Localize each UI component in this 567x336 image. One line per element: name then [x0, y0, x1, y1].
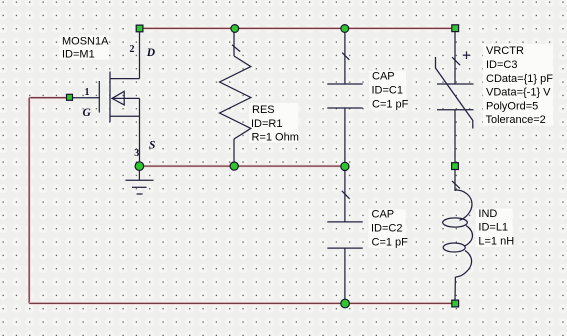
svg-text:1: 1 — [85, 87, 90, 98]
svg-text:MOSN1A: MOSN1A — [62, 35, 109, 47]
svg-text:G: G — [83, 107, 92, 119]
svg-text:ID=C2: ID=C2 — [371, 223, 403, 235]
inductor L1 — [443, 170, 473, 300]
wire: middle net (source/ground to C1-C2 node) — [139, 165, 345, 168]
svg-text:C=1 pF: C=1 pF — [372, 237, 409, 249]
svg-text:ID=M1: ID=M1 — [62, 49, 95, 61]
svg-text:ID=C1: ID=C1 — [372, 84, 404, 96]
svg-text:L=1 nH: L=1 nH — [478, 236, 514, 248]
text halo boxes — [59, 36, 553, 249]
wire: top net from M1 drain to C3 — [140, 27, 456, 30]
capacitor C1 — [327, 32, 362, 162]
svg-text:C=1 pF: C=1 pF — [372, 99, 409, 111]
label RES / ID=R1 / R=1 Ohm — [251, 104, 299, 144]
svg-text:ID=C3: ID=C3 — [486, 59, 518, 71]
svg-text:PolyOrd=5: PolyOrd=5 — [486, 100, 538, 112]
label CAP / ID=C2 / C=1 pF — [371, 209, 408, 249]
label IND / ID=L1 / L=1 nH — [478, 208, 514, 248]
transistor M1 MOSN1A — [67, 32, 140, 162]
svg-text:CAP: CAP — [372, 71, 395, 83]
node: junction at ground — [135, 162, 144, 171]
svg-text:CAP: CAP — [372, 209, 395, 221]
svg-text:VData={-1} V: VData={-1} V — [486, 87, 551, 99]
wire: bottom net — [29, 302, 455, 305]
node: junction at R1 bottom — [230, 162, 238, 170]
label MOSN1A / ID=M1 — [62, 35, 109, 60]
svg-text:VRCTR: VRCTR — [486, 45, 524, 57]
svg-text:3: 3 — [134, 148, 139, 159]
node: junction at C2 bottom — [341, 299, 350, 308]
varactor C3 VRCTR — [436, 32, 474, 162]
capacitor C2 — [327, 171, 362, 300]
svg-text:Tolerance=2: Tolerance=2 — [486, 114, 546, 126]
node: port square between C3 and L1 — [452, 163, 459, 170]
resistor R1 — [220, 32, 251, 162]
node: port square at C3 top — [452, 25, 459, 32]
label CAP / ID=C1 / C=1 pF — [372, 71, 409, 111]
ground — [125, 170, 153, 194]
node: junction at C1 top — [341, 25, 349, 33]
svg-text:RES: RES — [252, 104, 275, 116]
svg-text:2: 2 — [130, 44, 135, 55]
node: junction at R1 top — [231, 25, 239, 33]
node: port square at L1 bottom — [452, 300, 459, 307]
node: port square at M1 gate — [67, 94, 73, 100]
node: junction at C1-C2 — [341, 162, 349, 170]
svg-text:ID=L1: ID=L1 — [478, 222, 508, 234]
svg-text:IND: IND — [478, 208, 497, 220]
node: port square at M1 drain top — [136, 25, 143, 32]
svg-text:CData={1} pF: CData={1} pF — [486, 73, 553, 85]
svg-text:ID=R1: ID=R1 — [251, 118, 283, 130]
svg-text:D: D — [146, 47, 156, 59]
wire: left vertical segment — [28, 98, 31, 304]
label VRCTR parameter block — [486, 45, 554, 126]
svg-text:S: S — [149, 140, 155, 152]
wire: gate horizontal segment — [29, 96, 67, 99]
svg-text:R=1 Ohm: R=1 Ohm — [252, 132, 299, 144]
